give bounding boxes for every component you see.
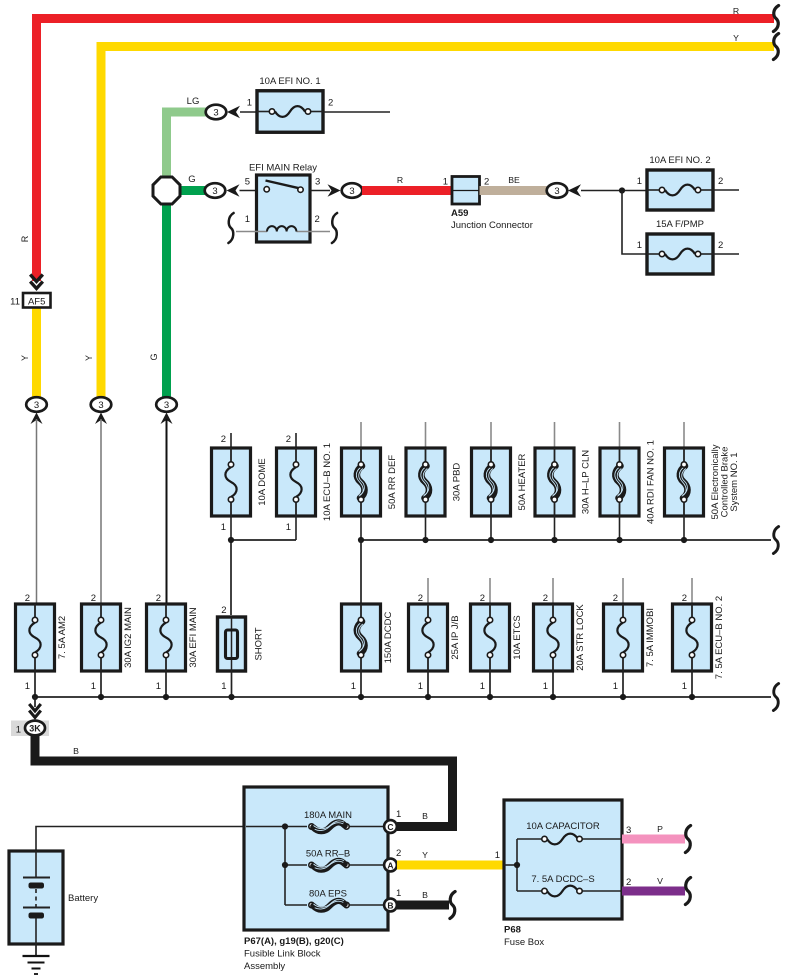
svg-text:1: 1 xyxy=(613,681,618,692)
svg-text:P68: P68 xyxy=(504,925,521,936)
svg-text:7. 5A IMMOBI: 7. 5A IMMOBI xyxy=(645,608,656,667)
svg-text:B: B xyxy=(387,901,393,911)
wire stub above fuse 25A IP J/B xyxy=(427,578,429,604)
svg-text:1: 1 xyxy=(396,888,401,899)
svg-text:10A ETCS: 10A ETCS xyxy=(512,615,523,659)
wire below fuse 10A DOME xyxy=(230,516,232,540)
label G xyxy=(188,174,195,185)
junction node on row-2 bus xyxy=(228,694,234,700)
break symbol at R wire right end xyxy=(773,6,778,32)
svg-text:10A ECU–B NO. 1: 10A ECU–B NO. 1 xyxy=(322,443,333,521)
fusible link 50A RR-B xyxy=(306,849,350,870)
svg-text:1: 1 xyxy=(247,98,252,109)
wire below fuse 25A IP J/B xyxy=(427,671,429,697)
bus wire row 2 xyxy=(35,696,771,698)
svg-text:1: 1 xyxy=(396,809,401,820)
junction node on row-2 bus xyxy=(32,694,38,700)
svg-text:Y: Y xyxy=(733,33,739,43)
connector 3 (BE wire) xyxy=(547,183,568,198)
wire joining DOME and ECU-B NO.1, down to SHORT pin xyxy=(231,540,296,615)
label R (top wire) xyxy=(733,6,739,16)
connector 3 (column 3) xyxy=(156,397,177,412)
svg-text:10A CAPACITOR: 10A CAPACITOR xyxy=(526,821,600,832)
wire from connector to fuses EFI NO.2 / F PMP xyxy=(581,190,647,192)
svg-text:2: 2 xyxy=(25,593,30,604)
wire from fuse EFI NO.1 pin 2 xyxy=(323,111,390,113)
wire stub above fuse 50A RR DEF xyxy=(360,422,362,448)
wire below fuse 10A ETCS xyxy=(489,671,491,697)
svg-text:2: 2 xyxy=(613,593,618,604)
svg-text:1: 1 xyxy=(443,177,448,188)
junction node on row-1 bus xyxy=(358,537,364,543)
wire stub above fuse 10A ECU-B NO. 1 xyxy=(286,433,296,448)
label 11 (AF5 pin) xyxy=(10,297,20,308)
arrow (into connector 3 on BE wire) xyxy=(568,184,581,197)
internal wiring of P68 xyxy=(504,839,622,891)
break symbol at row-2 bus end xyxy=(773,684,778,711)
svg-text:AF5: AF5 xyxy=(28,297,45,308)
junction node on row-2 bus xyxy=(550,694,556,700)
fuse box P68 xyxy=(504,800,622,948)
terminal A xyxy=(384,848,401,871)
junction node on row-1 bus xyxy=(488,537,494,543)
svg-text:2: 2 xyxy=(221,605,226,616)
svg-text:3: 3 xyxy=(554,186,559,197)
svg-text:LG: LG xyxy=(187,96,200,107)
svg-text:1: 1 xyxy=(25,681,30,692)
wire relay pin 2 stub xyxy=(310,231,330,233)
junction node on row-2 bus xyxy=(487,694,493,700)
wire stub above fuse 7.5A ECU-B NO. 2 xyxy=(691,578,693,604)
wire below fuse 30A IG2 MAIN xyxy=(100,671,102,697)
break symbol at row-1 bus end xyxy=(773,527,778,554)
fuse 10A DOME xyxy=(212,448,269,533)
terminal B xyxy=(384,888,401,911)
svg-text:1: 1 xyxy=(480,681,485,692)
svg-text:1: 1 xyxy=(682,681,687,692)
svg-text:2: 2 xyxy=(315,214,320,225)
wire below fuse 30A EFI MAIN xyxy=(165,671,167,697)
label Y (rotated, column 2) xyxy=(84,355,94,361)
wire stub above fuse 50A HEATER xyxy=(490,422,492,448)
svg-text:R: R xyxy=(397,175,403,185)
svg-text:80A EPS: 80A EPS xyxy=(309,889,347,900)
label B (at B terminal) xyxy=(422,890,428,900)
arrow (into connector 3 at EFI NO.1) xyxy=(227,106,240,119)
svg-text:180A MAIN: 180A MAIN xyxy=(304,810,352,821)
svg-text:50A RR–B: 50A RR–B xyxy=(306,849,350,860)
svg-text:1: 1 xyxy=(91,681,96,692)
svg-text:R: R xyxy=(733,6,739,16)
wire stub above fuse 10A ETCS xyxy=(489,578,491,604)
svg-text:2: 2 xyxy=(286,434,291,445)
svg-text:10A DOME: 10A DOME xyxy=(257,458,268,506)
svg-text:30A PBD: 30A PBD xyxy=(452,463,463,502)
svg-text:B: B xyxy=(73,746,79,756)
wire to fuse EFI NO.1 pin 1 xyxy=(240,111,257,113)
svg-text:50A RR DEF: 50A RR DEF xyxy=(387,455,398,510)
fuse 10A EFI NO. 2 xyxy=(637,155,724,210)
fuse 7.5A IMMOBI xyxy=(604,593,657,692)
arrow (into connector 3 at relay pin 5) xyxy=(227,184,240,197)
label G (rotated, column 3) xyxy=(149,353,159,360)
wire down from connector column 2 xyxy=(100,419,102,604)
label 1 (P68 pin) xyxy=(495,850,500,861)
fuse 15A F/PMP xyxy=(637,219,724,274)
connector 3 (column 1) xyxy=(26,397,47,412)
svg-text:150A DCDC: 150A DCDC xyxy=(383,611,394,663)
fuse 10A CAPACITOR xyxy=(526,821,600,844)
wire below fuse 30A PBD xyxy=(425,516,427,540)
svg-text:2: 2 xyxy=(484,177,489,188)
junction node on row-2 bus xyxy=(620,694,626,700)
fuse 30A EFI MAIN xyxy=(147,593,200,692)
wire stub above fuse 20A STR LOCK xyxy=(552,578,554,604)
wire from row-2 bus down to connector 3K xyxy=(34,697,36,707)
wire below fuse 30A H-LP CLN xyxy=(554,516,556,540)
wire relay pin 1 stub xyxy=(236,231,257,233)
svg-text:7. 5A ECU–B NO. 2: 7. 5A ECU–B NO. 2 xyxy=(714,596,725,679)
arrow into connector 3K xyxy=(29,704,41,718)
svg-text:2: 2 xyxy=(418,593,423,604)
connector 3 (relay pin 3 / R wire) xyxy=(342,183,363,198)
wire V (violet from P68 pin 2) xyxy=(622,887,685,896)
internal wiring of fusible link block xyxy=(246,823,384,905)
label V xyxy=(657,876,663,886)
wire stub above fuse 10A DOME xyxy=(221,433,231,448)
wire stub above fuse 30A H-LP CLN xyxy=(554,422,556,448)
wire below fuse 7.5A IMMOBI xyxy=(622,671,624,697)
svg-text:3: 3 xyxy=(34,400,39,411)
junction node on row-1 bus xyxy=(616,537,622,543)
junction node on row-1 bus xyxy=(422,537,428,543)
svg-text:2: 2 xyxy=(221,434,226,445)
wire down from connector column 3 xyxy=(166,419,168,604)
svg-text:2: 2 xyxy=(328,98,333,109)
fuse 7.5A AM2 xyxy=(16,593,69,692)
svg-text:Fuse Box: Fuse Box xyxy=(504,937,544,948)
svg-text:2: 2 xyxy=(626,877,631,888)
arrow (up into connector 3 column 1) xyxy=(31,413,43,425)
fusible link 180A MAIN xyxy=(304,810,352,831)
svg-text:2: 2 xyxy=(156,593,161,604)
svg-text:1: 1 xyxy=(221,681,226,692)
arrow (into connector 3 right of relay) xyxy=(328,184,341,197)
svg-text:30A H–LP CLN: 30A H–LP CLN xyxy=(581,450,592,514)
wire below fuse 50A RR DEF xyxy=(360,516,362,540)
label Y (top wire) xyxy=(733,33,739,43)
junction connector A59 xyxy=(443,177,533,232)
svg-text:G: G xyxy=(188,174,195,185)
wire below fuse 150A DCDC xyxy=(360,671,362,697)
fuse 7.5A ECU-B NO. 2 xyxy=(673,593,726,692)
wire B (B terminal, to break) xyxy=(397,901,449,910)
wire stub above fuse 7.5A IMMOBI xyxy=(622,578,624,604)
fuse 50A ECB NO. 1 xyxy=(665,444,741,519)
label B xyxy=(73,746,79,756)
svg-text:3: 3 xyxy=(626,825,631,836)
break symbol right of relay coil xyxy=(332,213,337,243)
label Y (rotated, column 1) xyxy=(20,355,30,361)
fuse 50A HEATER xyxy=(472,448,529,516)
svg-text:R: R xyxy=(20,235,30,242)
svg-text:Battery: Battery xyxy=(68,893,98,904)
fuse 10A EFI NO. 1 xyxy=(247,76,334,132)
junction octagon xyxy=(153,177,180,204)
arrow into AF5 xyxy=(30,275,43,289)
svg-text:P: P xyxy=(657,824,663,834)
label 2 (P68 pin) xyxy=(626,877,631,888)
svg-text:EFI MAIN Relay: EFI MAIN Relay xyxy=(249,163,317,174)
fuse 10A ECU-B NO. 1 xyxy=(277,443,334,533)
svg-text:C: C xyxy=(387,822,393,832)
fuse 30A IG2 MAIN xyxy=(82,593,135,692)
svg-text:7. 5A DCDC–S: 7. 5A DCDC–S xyxy=(531,874,594,885)
svg-text:A59: A59 xyxy=(451,208,468,219)
label Y xyxy=(422,850,428,860)
svg-text:3: 3 xyxy=(315,177,320,188)
fuse 10A ETCS xyxy=(471,593,524,692)
wire stub above fuse 30A PBD xyxy=(425,422,427,448)
svg-text:2: 2 xyxy=(480,593,485,604)
svg-text:3: 3 xyxy=(349,186,354,197)
junction node xyxy=(619,187,625,193)
wire below fuse 10A ECU-B NO. 1 xyxy=(295,516,297,540)
svg-text:3: 3 xyxy=(213,107,218,118)
connector 3 (LG, fuse EFI NO.1) xyxy=(206,105,227,120)
battery xyxy=(9,851,98,944)
wire BE xyxy=(480,186,548,195)
svg-text:System NO. 1: System NO. 1 xyxy=(729,452,740,511)
svg-text:40A RDI FAN NO. 1: 40A RDI FAN NO. 1 xyxy=(646,440,657,524)
svg-text:1: 1 xyxy=(351,681,356,692)
wire to relay pin 5 xyxy=(240,190,257,192)
svg-text:B: B xyxy=(422,890,428,900)
wire relay pin 3 to connector xyxy=(310,190,330,192)
wire from fuse EFI NO.2 pin 2 xyxy=(713,189,739,191)
fuse 20A STR LOCK xyxy=(534,593,587,692)
svg-text:Junction Connector: Junction Connector xyxy=(451,220,533,231)
connector 3 (column 2) xyxy=(91,397,112,412)
label B (at C terminal) xyxy=(422,811,428,821)
svg-text:2: 2 xyxy=(718,240,723,251)
wire B (thick black from 3K to fusible link C terminal) xyxy=(35,735,453,827)
svg-text:11: 11 xyxy=(10,297,20,308)
junction node at DOME column xyxy=(228,537,234,543)
label LG xyxy=(187,96,200,107)
wire P (pink from P68 pin 3) xyxy=(622,835,685,844)
fuse 7.5A DCDC-S xyxy=(531,874,594,896)
wire Y (thick yellow, from top run down to connector column 2) xyxy=(101,47,774,399)
svg-text:G: G xyxy=(149,353,159,360)
junction node on row-1 bus xyxy=(551,537,557,543)
wire G (junction to EFI MAIN relay) xyxy=(180,186,206,195)
wire LG (light green from fuse EFI NO.1 to junction) xyxy=(167,112,207,178)
wire R to junction connector A59 xyxy=(362,186,452,195)
wire Y (A terminal to P68 fuse box) xyxy=(397,861,504,870)
wire from row-1 bus down to fuse 150A DCDC xyxy=(360,540,362,604)
svg-text:15A F/PMP: 15A F/PMP xyxy=(656,219,704,230)
break symbol on P wire xyxy=(685,826,690,853)
svg-text:Y: Y xyxy=(20,355,30,361)
svg-text:50A HEATER: 50A HEATER xyxy=(517,453,528,510)
svg-text:BE: BE xyxy=(508,175,520,185)
svg-text:P67(A), g19(B), g20(C): P67(A), g19(B), g20(C) xyxy=(244,936,344,947)
junction node on row-2 bus xyxy=(358,694,364,700)
svg-text:25A IP J/B: 25A IP J/B xyxy=(450,615,461,659)
svg-text:SHORT: SHORT xyxy=(254,627,265,660)
svg-text:20A STR LOCK: 20A STR LOCK xyxy=(575,604,586,671)
wire stub above fuse 40A RDI FAN NO. 1 xyxy=(619,422,621,448)
svg-text:1: 1 xyxy=(543,681,548,692)
svg-text:1: 1 xyxy=(245,214,250,225)
fuse 50A RR DEF xyxy=(342,448,399,516)
wire below fuse 50A HEATER xyxy=(490,516,492,540)
junction node on row-2 bus xyxy=(425,694,431,700)
label R (rotated, left red wire) xyxy=(20,235,30,242)
junction node on row-2 bus xyxy=(98,694,104,700)
svg-text:1: 1 xyxy=(221,522,226,533)
svg-text:Y: Y xyxy=(84,355,94,361)
junction node on row-2 bus xyxy=(689,694,695,700)
wire below SHORT xyxy=(231,671,233,697)
wire below fuse 40A RDI FAN NO. 1 xyxy=(619,516,621,540)
svg-text:30A EFI MAIN: 30A EFI MAIN xyxy=(188,607,199,667)
wire below fuse 50A ECB NO. 1 xyxy=(683,516,685,540)
svg-text:3: 3 xyxy=(164,400,169,411)
fuse 25A IP J/B xyxy=(409,593,462,692)
wire from fuse F/PMP pin 2 xyxy=(713,253,739,255)
svg-text:1: 1 xyxy=(637,240,642,251)
svg-text:Assembly: Assembly xyxy=(244,961,285,972)
wire stub above fuse 50A ECB NO. 1 xyxy=(683,422,685,448)
break symbol left of relay coil xyxy=(228,213,233,243)
svg-text:Y: Y xyxy=(422,850,428,860)
fuse 150A DCDC xyxy=(342,604,395,692)
svg-text:1: 1 xyxy=(637,176,642,187)
arrow (up into connector 3 column 3) xyxy=(161,413,173,425)
fusible link block assembly box xyxy=(244,787,388,972)
fuse 30A H-LP CLN xyxy=(535,448,592,516)
svg-text:Fusible Link Block: Fusible Link Block xyxy=(244,949,321,960)
svg-text:1: 1 xyxy=(495,850,500,861)
wire Y (column 1, AF5 down to connector) xyxy=(32,307,41,398)
terminal C xyxy=(384,809,401,833)
wire below fuse 20A STR LOCK xyxy=(552,671,554,697)
wire battery positive to fusible link block xyxy=(36,827,285,853)
label P xyxy=(657,824,663,834)
connector AF5 xyxy=(23,293,51,308)
svg-text:2: 2 xyxy=(718,176,723,187)
svg-text:V: V xyxy=(657,876,663,886)
svg-text:30A IG2 MAIN: 30A IG2 MAIN xyxy=(123,607,134,668)
label BE xyxy=(508,175,520,185)
svg-text:A: A xyxy=(387,861,393,871)
svg-text:2: 2 xyxy=(543,593,548,604)
svg-text:3: 3 xyxy=(98,400,103,411)
wire down from connector column 1 xyxy=(36,419,38,604)
wire below fuse 7.5A AM2 xyxy=(34,671,36,697)
arrow (up into connector 3 column 2) xyxy=(95,413,107,425)
svg-text:2: 2 xyxy=(396,848,401,859)
ground xyxy=(23,944,50,974)
svg-text:2: 2 xyxy=(682,593,687,604)
svg-text:5: 5 xyxy=(245,177,250,188)
svg-text:1: 1 xyxy=(418,681,423,692)
wire R (thick red, top-left corner run) xyxy=(37,19,775,282)
svg-text:B: B xyxy=(422,811,428,821)
svg-text:1: 1 xyxy=(16,725,21,736)
svg-text:1: 1 xyxy=(156,681,161,692)
svg-text:7. 5A AM2: 7. 5A AM2 xyxy=(57,616,68,659)
wire G (junction down to connector column 3) xyxy=(162,203,171,398)
svg-text:10A EFI NO. 2: 10A EFI NO. 2 xyxy=(649,155,710,166)
svg-text:3K: 3K xyxy=(29,724,41,734)
svg-text:10A EFI NO. 1: 10A EFI NO. 1 xyxy=(259,76,320,87)
wire branch down to fuse F/PMP xyxy=(622,191,647,255)
break symbol on B wire xyxy=(450,892,455,919)
connector 3 (G, relay pin 5) xyxy=(205,183,226,198)
fuse 40A RDI FAN NO. 1 xyxy=(600,440,657,524)
bus wire row 1 xyxy=(361,539,771,541)
junction node on row-2 bus xyxy=(163,694,169,700)
break symbol at Y wire right end xyxy=(773,34,778,60)
label 3 (P68 pin) xyxy=(626,825,631,836)
connector 3K (pin 1) xyxy=(11,721,49,737)
svg-text:1: 1 xyxy=(286,522,291,533)
fusible link 80A EPS xyxy=(309,889,349,910)
junction node on row-1 bus xyxy=(681,537,687,543)
label R xyxy=(397,175,403,185)
break symbol on V wire xyxy=(685,878,690,905)
relay EFI MAIN Relay xyxy=(245,163,321,243)
svg-text:3: 3 xyxy=(212,186,217,197)
wire below fuse 7.5A ECU-B NO. 2 xyxy=(691,671,693,697)
fuse 30A PBD xyxy=(406,448,463,516)
short pin SHORT xyxy=(218,605,265,692)
svg-text:2: 2 xyxy=(91,593,96,604)
